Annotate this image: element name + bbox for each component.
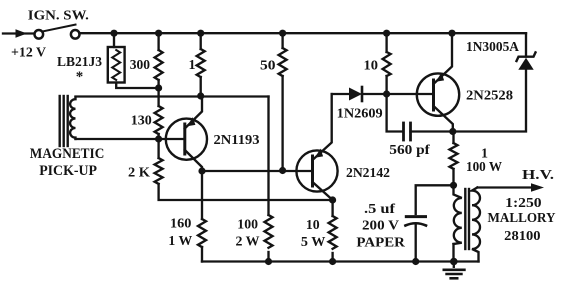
svg-text:100: 100 [237,218,258,233]
svg-text:MAGNETIC: MAGNETIC [30,146,105,162]
+12V feed arrow [3,29,34,38]
ballast lamp LB21J3 [108,33,159,88]
svg-text:1 W: 1 W [168,234,192,249]
capacitor C1 560 pf [404,123,453,140]
resistor R 2K [155,139,333,200]
svg-text:1N3005A: 1N3005A [466,40,520,55]
svg-text:560 pf: 560 pf [389,142,430,157]
zener D2 1N3005A [453,33,536,131]
svg-text:PAPER: PAPER [356,236,405,251]
transformer T1 core [465,189,469,249]
svg-text:10: 10 [306,218,320,233]
wire base net down to 560pf [387,94,403,132]
svg-text:160: 160 [170,217,191,232]
svg-text:H.V.: H.V. [522,168,554,183]
resistor R 160 1W [198,171,206,262]
resistor R 300 [155,33,163,88]
ground [444,262,465,279]
transistor Q2 2N2142 [296,94,337,200]
svg-text:IGN. SW.: IGN. SW. [28,8,89,23]
svg-text:100 W: 100 W [466,159,502,174]
diode D1 1N2609 [332,87,387,101]
svg-text:2N2528: 2N2528 [466,89,513,104]
transistor Q3 2N2528 [387,33,460,131]
svg-text:5 W: 5 W [301,235,326,250]
svg-text:2N2142: 2N2142 [346,166,390,181]
svg-text:300: 300 [130,57,151,72]
svg-text:10: 10 [364,59,379,74]
magnetic pick-up coil [60,96,269,146]
transistor Q1 2N1193 [159,96,207,171]
resistor R 10 5W [329,200,337,262]
resistor R 50 [279,33,287,170]
ignition switch IGN. SW. [35,25,80,39]
resistor R 1 100W [450,132,458,186]
resistor R 130 [155,106,163,139]
svg-text:*: * [76,69,84,85]
wire top rail [79,32,526,34]
svg-text:1:250: 1:250 [505,196,541,211]
wire node to 130 [157,88,159,106]
svg-text:50: 50 [260,59,276,74]
svg-text:2N1193: 2N1193 [214,133,260,148]
wire collector Q1 to base Q2 [202,170,313,172]
svg-text:LB21J3: LB21J3 [57,54,102,69]
resistor R 10 [383,33,391,94]
resistor R 100 2W [265,215,273,262]
svg-text:.5 uf: .5 uf [364,201,396,216]
svg-text:PICK-UP: PICK-UP [39,163,97,179]
svg-text:1N2609: 1N2609 [337,106,383,121]
H.V. output arrow [478,183,545,192]
capacitor C2 .5uf paper [405,185,453,261]
wire bottom rail [202,260,479,262]
wire 100-ohm drop from pickup node [267,97,269,216]
svg-text:200 V: 200 V [362,218,399,233]
svg-text:28100: 28100 [504,229,540,244]
transformer T1 MALLORY 28100 primary [454,185,462,261]
svg-text:+12 V: +12 V [11,45,46,60]
svg-text:MALLORY: MALLORY [488,211,556,226]
svg-text:1: 1 [189,58,196,73]
svg-text:130: 130 [131,113,152,128]
resistor R 1 [197,33,205,96]
svg-text:2 K: 2 K [128,165,150,180]
transformer T1 secondary [472,188,480,262]
svg-text:2 W: 2 W [236,235,260,250]
